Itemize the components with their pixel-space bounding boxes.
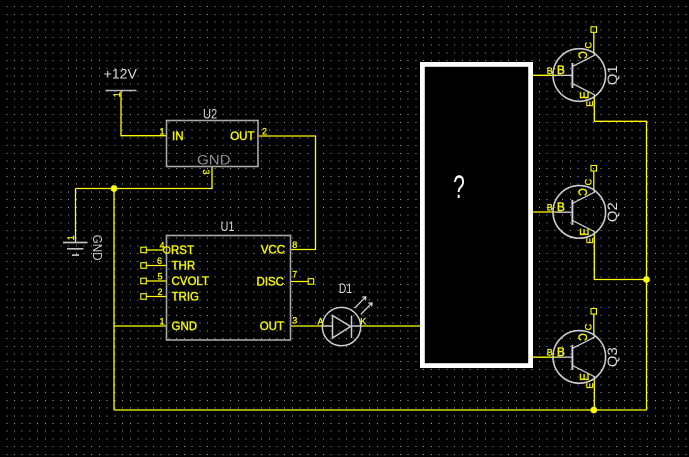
svg-text:C: C — [575, 188, 587, 196]
svg-text:B: B — [557, 202, 565, 214]
svg-text:3: 3 — [201, 170, 211, 175]
svg-text:7: 7 — [292, 270, 297, 280]
svg-text:K: K — [360, 317, 366, 327]
svg-text:B: B — [557, 65, 565, 77]
svg-text:E: E — [579, 228, 591, 236]
svg-text:8: 8 — [292, 240, 297, 250]
svg-text:TRIG: TRIG — [172, 292, 200, 304]
svg-text:E: E — [585, 238, 595, 244]
svg-text:E: E — [585, 383, 595, 389]
svg-text:OUT: OUT — [260, 321, 284, 333]
svg-text:5: 5 — [157, 272, 162, 282]
svg-text:1: 1 — [112, 92, 122, 97]
svg-text:B: B — [557, 347, 565, 359]
svg-text:C: C — [575, 51, 587, 59]
svg-text:E: E — [585, 101, 595, 107]
svg-text:B: B — [547, 348, 553, 358]
svg-text:CVOLT: CVOLT — [172, 276, 210, 288]
svg-text:VCC: VCC — [261, 245, 285, 257]
svg-text:1: 1 — [159, 127, 164, 137]
svg-text:+12V: +12V — [104, 66, 137, 81]
svg-text:Q2: Q2 — [604, 202, 620, 222]
svg-text:RST: RST — [171, 245, 194, 257]
svg-text:U1: U1 — [221, 218, 235, 234]
svg-text:C: C — [584, 42, 594, 49]
svg-text:OUT: OUT — [230, 131, 254, 143]
svg-text:B: B — [547, 203, 553, 213]
svg-text:U2: U2 — [203, 106, 217, 122]
svg-text:GND: GND — [90, 235, 104, 261]
svg-text:Q3: Q3 — [604, 347, 620, 367]
svg-text:C: C — [584, 323, 594, 330]
svg-text:DISC: DISC — [257, 277, 284, 289]
svg-text:E: E — [579, 91, 591, 99]
svg-text:C: C — [584, 178, 594, 185]
svg-text:GND: GND — [197, 152, 231, 167]
svg-text:2: 2 — [262, 127, 267, 137]
svg-text:4: 4 — [159, 241, 164, 251]
svg-text:E: E — [579, 373, 591, 381]
svg-text:GND: GND — [172, 321, 198, 333]
svg-text:?: ? — [453, 169, 465, 205]
svg-text:1: 1 — [66, 235, 76, 240]
svg-text:1: 1 — [159, 317, 164, 327]
svg-text:B: B — [547, 66, 553, 76]
svg-text:6: 6 — [157, 256, 162, 266]
svg-text:A: A — [318, 317, 324, 327]
svg-text:Q1: Q1 — [604, 65, 620, 85]
svg-text:C: C — [575, 333, 587, 341]
svg-text:IN: IN — [172, 131, 184, 143]
svg-text:D1: D1 — [339, 280, 352, 296]
svg-text:3: 3 — [292, 316, 297, 326]
svg-text:THR: THR — [172, 261, 196, 273]
svg-text:2: 2 — [157, 287, 162, 297]
